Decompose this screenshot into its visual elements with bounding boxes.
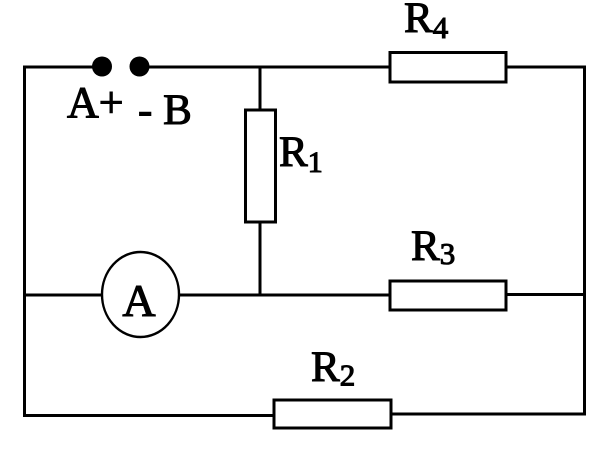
terminal dot A [92,57,112,77]
svg-text:A+: A+ [67,78,124,127]
wire top segment from terminal B to R4 [147,66,391,69]
wire top-right segment from R4 to right border [505,66,586,69]
resistor R3 [390,281,506,310]
wire right border [583,66,586,416]
resistor R4 [390,53,506,83]
terminal dot B [130,57,150,77]
svg-text:R2: R2 [311,344,355,393]
wire R1 bottom lead [259,221,262,296]
wire bottom-right segment from R2 to right border [390,413,586,416]
resistor R1 [246,110,276,222]
wire middle segment from ammeter to R3 [178,294,391,297]
wire middle-right segment from R3 to right border [505,293,586,296]
svg-text:A: A [122,275,155,326]
ammeter A [102,252,179,337]
svg-text:R1: R1 [279,129,323,179]
wire R1 top lead [259,66,262,111]
wire left border [23,66,26,418]
svg-text:- B: - B [138,87,192,134]
svg-text:R3: R3 [411,223,455,271]
wire middle-left segment from left border to ammeter [24,294,103,297]
resistor R2 [274,400,391,428]
wire top-left segment to terminal A [23,66,94,69]
wire bottom-left segment from left border to R2 [23,414,275,417]
svg-text:R4: R4 [404,0,449,45]
